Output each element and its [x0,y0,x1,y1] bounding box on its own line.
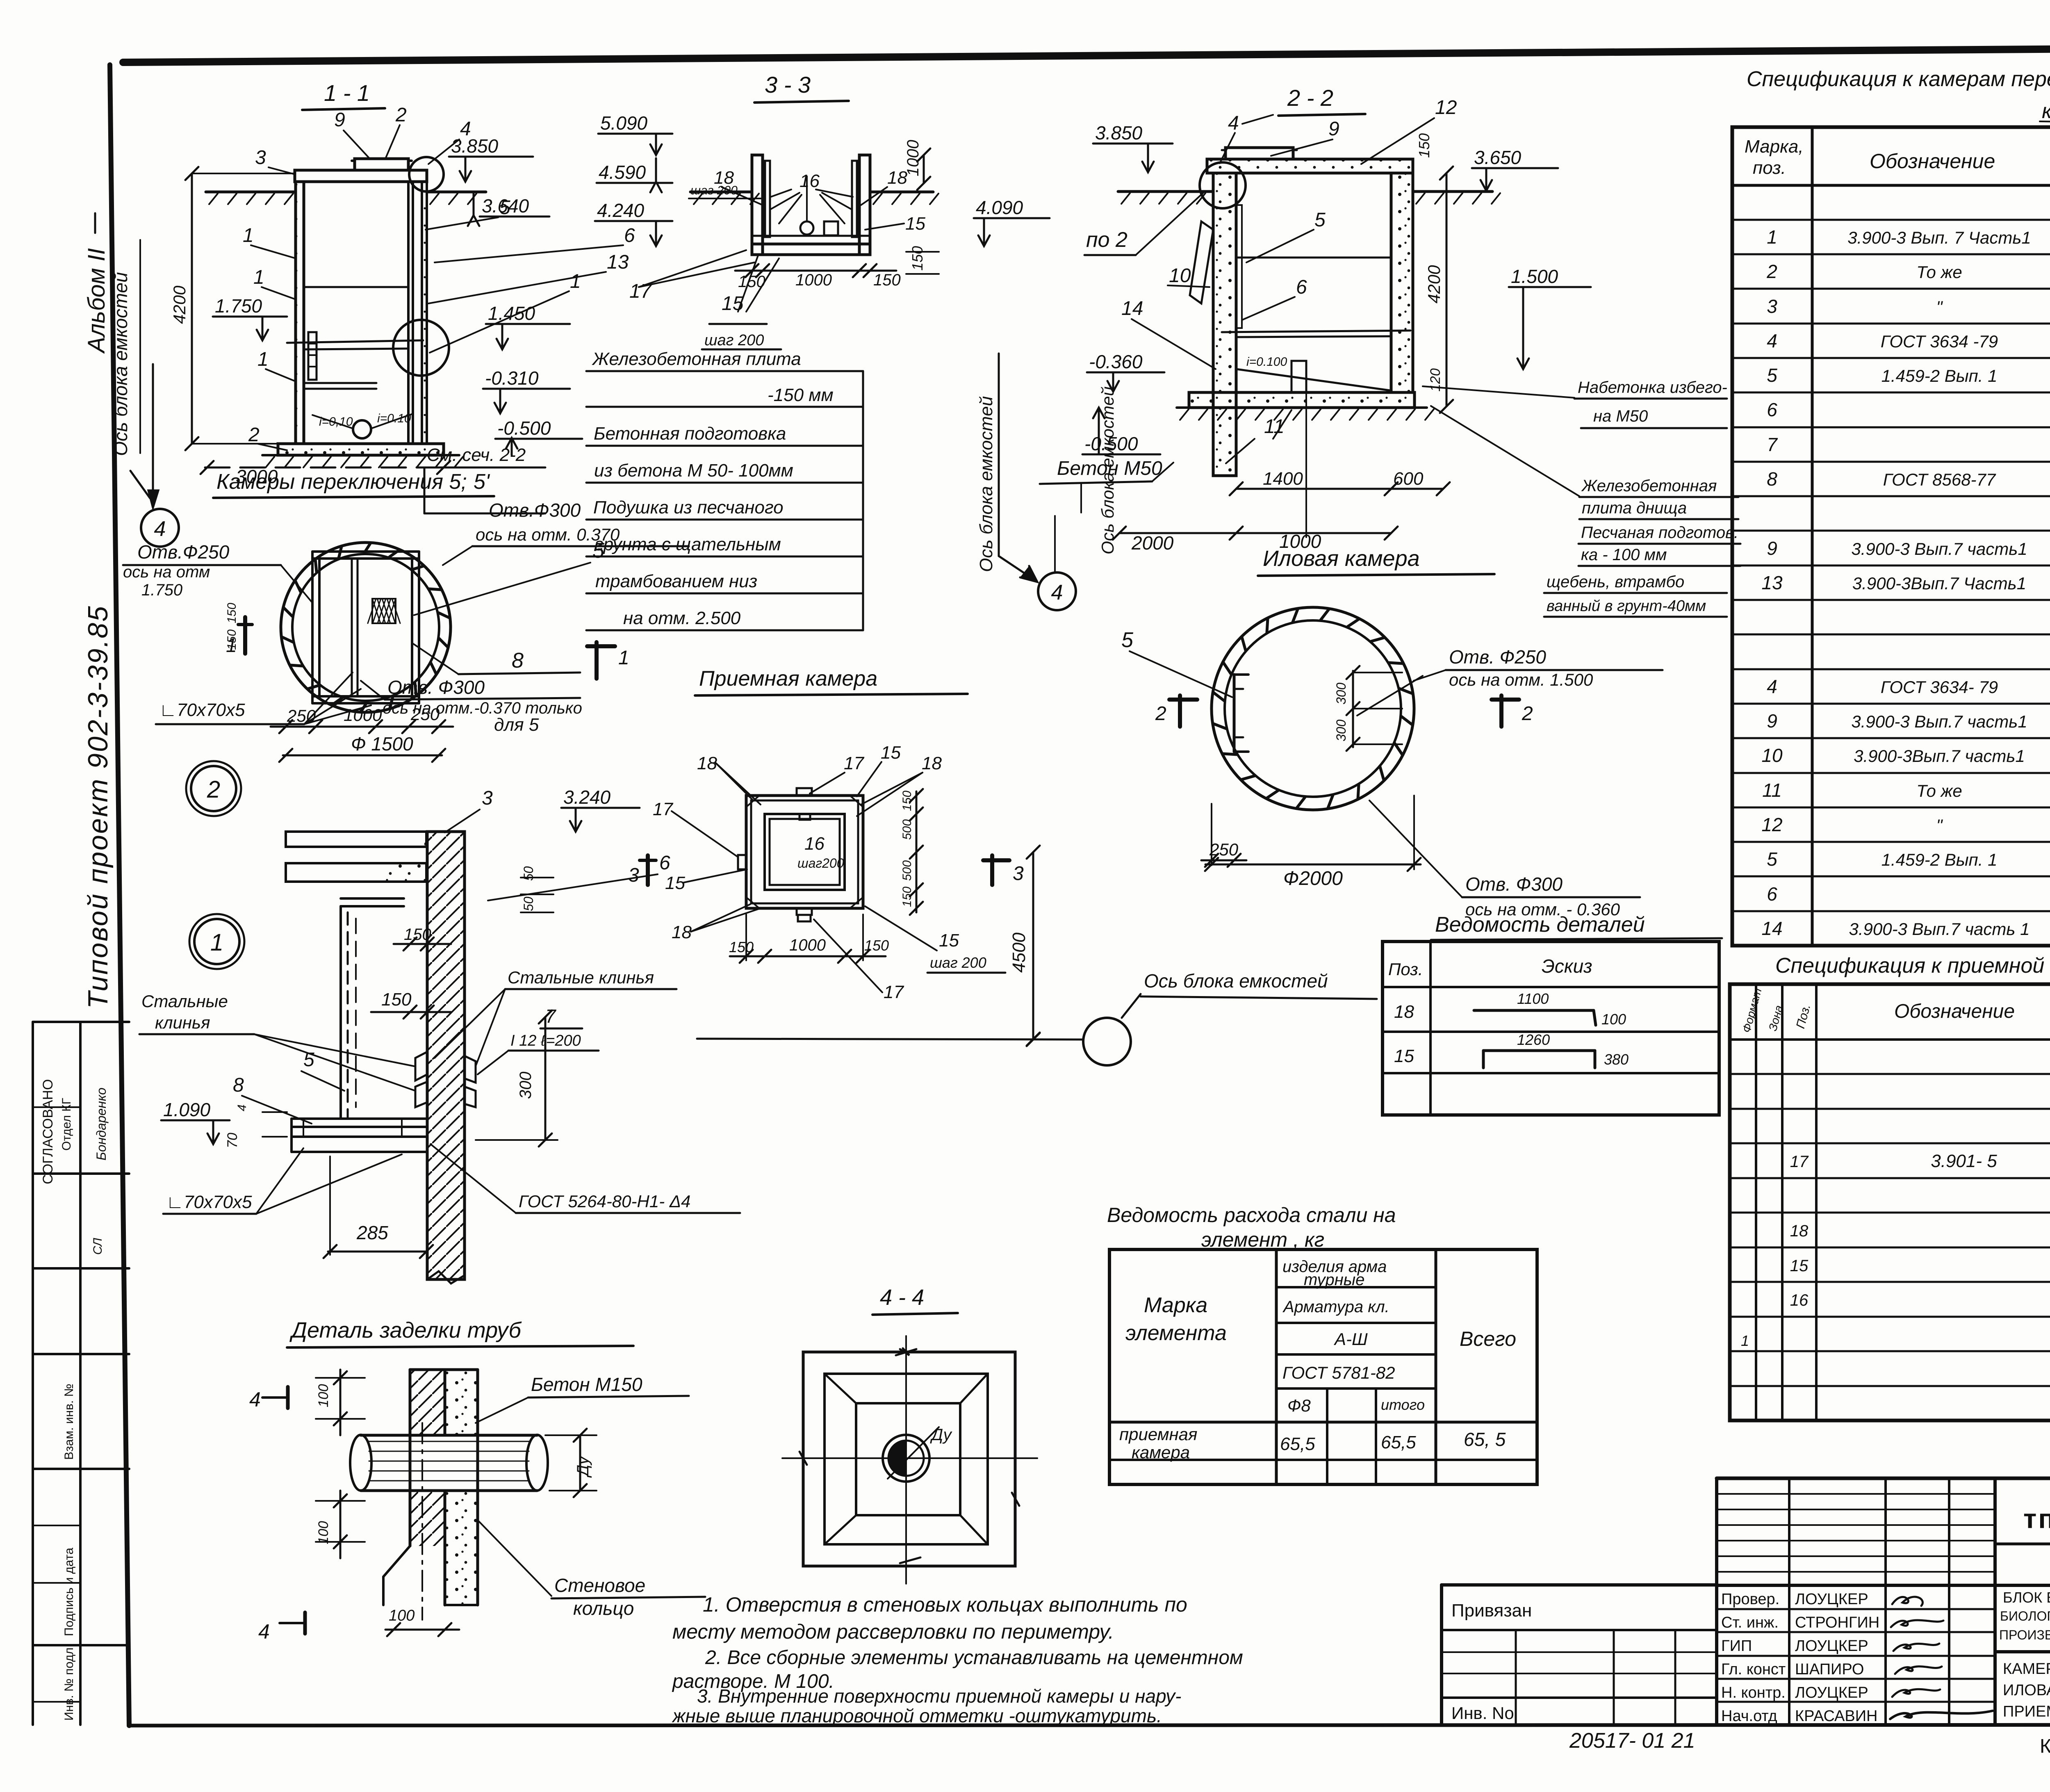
svg-text:КАМЕРА ПЕРЕКЛЮЧЕНИЯ 5, 5!: КАМЕРА ПЕРЕКЛЮЧЕНИЯ 5, 5! [2003,1660,2050,1678]
privyazan table [1442,1629,1717,1631]
svg-text:13: 13 [607,251,629,273]
section 1-1 left wall [296,182,304,444]
svg-text:Спецификация к камерам пе: Спецификация к камерам переключения, ило… [1747,67,2050,91]
priemnaya tabs [797,788,812,796]
section 3-3 ground hatch right [870,191,933,194]
svg-text:ка - 100 мм: ка - 100 мм [1581,546,1667,564]
pipe detail chamfer [383,1546,410,1577]
svg-text:Обозначение: Обозначение [1894,1001,2015,1022]
svg-text:2: 2 [248,424,260,446]
svg-text:Альбом II: Альбом II [83,248,110,354]
spec table 1 header row line [1732,184,2050,187]
svg-text:элемента: элемента [1125,1321,1227,1345]
svg-text:Нач.отд: Нач.отд [1721,1708,1777,1725]
section 1-1 ladder [308,332,317,380]
svg-text:4200: 4200 [1424,265,1444,303]
svg-text:Стеновое: Стеновое [554,1575,645,1596]
svg-text:1: 1 [618,647,629,669]
svg-text:Ось блока емкостей: Ось блока емкостей [976,396,996,572]
svg-text:6: 6 [1296,276,1307,298]
svg-text:Железобетонная: Железобетонная [1581,477,1717,495]
svg-text:ГОСТ 3634 -79: ГОСТ 3634 -79 [1881,332,1998,351]
section 1-1 ground hatch under slab [262,454,459,456]
ilovaya circle inner [1225,620,1401,797]
svg-text:для 5: для 5 [494,715,539,735]
svg-text:17: 17 [653,799,673,819]
stamp strip extra row lines [33,1525,80,1526]
spec table 1 rows [1732,219,2050,221]
svg-text:250: 250 [287,706,316,725]
svg-text:8: 8 [233,1074,244,1096]
svg-text:4.090: 4.090 [976,197,1023,218]
svg-text:15: 15 [665,873,685,893]
svg-text:14: 14 [1121,298,1143,319]
svg-text:БЛОК ЕМКОСТЕЙ ДЛЯ СТАНЦИИ: БЛОК ЕМКОСТЕЙ ДЛЯ СТАНЦИИ [2003,1589,2050,1606]
svg-text:1: 1 [1741,1332,1749,1349]
svg-text:4: 4 [1767,676,1777,697]
svg-text:камера: камера [2042,99,2050,123]
svg-text:на отм. 2.500: на отм. 2.500 [623,608,741,628]
svg-text:Стальные: Стальные [141,992,228,1011]
svg-text:11: 11 [1762,780,1782,801]
svg-text:1 - 1: 1 - 1 [324,80,370,106]
svg-text:150: 150 [909,246,926,271]
svg-text:на М50: на М50 [1593,407,1648,425]
plan circled 1 marker [194,919,239,964]
svg-text:4: 4 [235,1104,249,1111]
svg-text:Ведомость расхода стали на: Ведомость расхода стали на [1107,1204,1396,1227]
svg-text:Отв. Ф300: Отв. Ф300 [1465,873,1563,895]
section 4-4 inner square [856,1403,960,1515]
svg-text:70: 70 [225,1133,240,1148]
svg-text:3: 3 [1767,296,1777,317]
pipe detail centerline [421,1423,423,1620]
svg-text:": " [1936,297,1943,317]
axis leader and circle [1122,994,1141,1018]
wall detail upper slab 2 [286,863,426,882]
svg-text:10: 10 [1169,265,1191,287]
svg-text:5: 5 [592,539,605,563]
callout stack nabetonka leaders [1423,386,1574,398]
svg-text:шаг200: шаг200 [797,856,844,871]
section 3-3 ground hatch left [690,191,752,194]
svg-text:250: 250 [410,704,440,724]
svg-text:15: 15 [1790,1257,1809,1275]
svg-text:клинья: клинья [155,1013,210,1032]
svg-text:4: 4 [249,1388,261,1411]
svg-text:1000: 1000 [344,705,382,725]
svg-text:16: 16 [1790,1291,1809,1309]
svg-text:3.240: 3.240 [563,787,611,808]
section 2-2 dims 2000 1000 [1119,532,1391,534]
svg-text:1.090: 1.090 [163,1099,211,1120]
section 2-2 right wall [1391,173,1413,392]
svg-text:Отв.Ф300: Отв.Ф300 [489,499,581,521]
svg-text:Поз.: Поз. [1388,960,1423,979]
svg-text:Гл. конст: Гл. конст [1721,1661,1786,1678]
svg-text:Бондаренко: Бондаренко [94,1088,109,1160]
svg-text:СТРОНГИН: СТРОНГИН [1795,1614,1879,1631]
svg-text:ИЛОВАЯ КАМЕРА.: ИЛОВАЯ КАМЕРА. [2003,1682,2050,1699]
plan chamber inner structure [312,550,419,553]
svg-text:шаг 200: шаг 200 [690,184,738,197]
svg-text:18: 18 [1394,1002,1414,1022]
svg-text:-0.360: -0.360 [1089,351,1143,372]
svg-text:4: 4 [1051,581,1063,604]
svg-text:Инв. No: Инв. No [1451,1703,1514,1723]
svg-text:ГИП: ГИП [1721,1637,1752,1655]
sheet frame bottom border [129,1725,2050,1726]
spec table 2 header line [1730,1038,2050,1041]
svg-text:-0.500: -0.500 [497,417,551,439]
svg-text:3.901- 5: 3.901- 5 [1931,1151,1997,1171]
svg-text:1400: 1400 [1263,469,1303,489]
svg-text:жные выше планировочной отм: жные выше планировочной отметки -оштукат… [672,1705,1162,1726]
svg-text:Привязан: Привязан [1451,1600,1532,1621]
svg-text:3.900-3 Вып.7 часть1: 3.900-3 Вып.7 часть1 [1851,712,2027,731]
svg-text:4 - 4: 4 - 4 [880,1285,924,1310]
svg-text:ПРИЕМНАЯ КАМЕРА.: ПРИЕМНАЯ КАМЕРА. [2003,1703,2050,1720]
plan dims 250 1000 250 [271,726,453,728]
svg-text:шаг 200: шаг 200 [704,332,764,349]
section 3-3 reinforcement bars [765,161,770,237]
section 4-4 outer square [803,1352,1015,1566]
svg-text:Взам. инв. №: Взам. инв. № [62,1384,76,1460]
section 4-4 edge break marks [900,1348,909,1355]
svg-text:3: 3 [1013,863,1024,885]
pipe detail wall band [409,1370,412,1546]
svg-text:Ф8: Ф8 [1287,1396,1311,1415]
left margin axis arrow line [152,364,154,494]
svg-text:3.900-3 Вып.7 часть1: 3.900-3 Вып.7 часть1 [1851,539,2027,559]
section 3-3 interior items [800,221,813,235]
svg-text:9: 9 [1767,710,1777,732]
svg-text:Типовой проект 902-3-39.85: Типовой проект 902-3-39.85 [82,605,114,1009]
svg-text:месту методом рассверловки: месту методом рассверловки по периметру. [672,1620,1114,1643]
section 4-4 center lines [905,1336,907,1584]
svg-text:5: 5 [303,1049,314,1071]
title block signature rows [1717,1608,1995,1610]
svg-text:Стальные клинья: Стальные клинья [508,968,654,987]
svg-text:17: 17 [884,982,904,1002]
svg-text:итого: итого [1381,1396,1425,1413]
svg-text:3.900-3 Вып. 7 Часть1: 3.900-3 Вып. 7 Часть1 [1847,228,2031,247]
section 2-2 hatch cap [1225,148,1293,159]
wall detail liner angle [339,906,342,1119]
section 2-2 left wall [1213,173,1236,476]
svg-text:16: 16 [804,834,825,854]
svg-text:7: 7 [1767,434,1778,455]
svg-text:2: 2 [1155,703,1166,725]
section 1-1 ground line left [206,191,295,194]
svg-text:То же: То же [1916,262,1962,282]
section 2-2 ground line left [1118,190,1213,193]
ilovaya circle outer [1212,607,1414,810]
svg-text:Эскиз: Эскиз [1542,955,1592,977]
svg-text:16: 16 [799,171,820,191]
svg-text:3: 3 [255,147,266,169]
svg-text:1.500: 1.500 [1511,266,1558,287]
svg-text:3.650: 3.650 [1474,147,1522,168]
wall detail steel wedges [415,1052,427,1081]
svg-text:8: 8 [512,649,524,673]
spec table 2 rows [1730,1073,2050,1075]
svg-text:поз.: поз. [1753,158,1786,178]
svg-text:4.590: 4.590 [599,162,646,183]
svg-text:3.900-3Вып.7 Часть1: 3.900-3Вып.7 Часть1 [1852,574,2026,593]
svg-text:100: 100 [316,1384,331,1407]
wall detail axis dashed [355,919,357,1107]
section 1-1 dim 3000 [205,467,445,469]
svg-text:2: 2 [1522,703,1533,725]
svg-text:-0.310: -0.310 [485,367,539,389]
svg-text:65, 5: 65, 5 [1464,1429,1506,1450]
svg-text:5': 5' [474,470,490,494]
svg-text:Инв. № подл.: Инв. № подл. [62,1644,76,1721]
title block small top rows [1717,1493,1995,1495]
svg-text:150: 150 [729,939,754,955]
svg-text:50: 50 [521,896,536,911]
svg-text:1000: 1000 [904,140,922,176]
svg-text:18: 18 [672,922,692,942]
svg-text:ГОСТ 5264-80-Н1- Δ4: ГОСТ 5264-80-Н1- Δ4 [519,1192,690,1211]
section 3-3 bottom dims 150 1000 150 [735,270,896,272]
svg-text:ПРОИЗВОДИТЕЛЬНОСТЬЮ 400 М3/СУТ: ПРОИЗВОДИТЕЛЬНОСТЬЮ 400 М3/СУТКИ [1999,1628,2050,1642]
section 1-1 ground line right [427,191,486,194]
section 2-2 stremyanka inner ladder [1236,205,1242,328]
svg-text:Н. контр.: Н. контр. [1721,1684,1786,1701]
svg-text:50: 50 [521,866,536,881]
spec table 1 frame [1732,127,2050,946]
svg-text:Арматура кл.: Арматура кл. [1282,1298,1389,1316]
sheet frame left border [110,65,129,1726]
plan section mark 1 left [243,617,247,654]
left bottom stamp boxes [32,1022,34,1725]
section 3-3 channel left wall [752,155,763,255]
svg-text:Песчаная подготов.: Песчаная подготов. [1581,524,1738,542]
title block vertical cols left [1788,1478,1790,1725]
section 2-2 dims 1400 600 [1236,488,1443,490]
svg-text:100: 100 [316,1521,331,1544]
svg-text:1: 1 [243,225,254,246]
svg-text:Ф 1500: Ф 1500 [351,733,413,755]
ilovaya dim 300 300 [1352,671,1354,747]
svg-text:1000: 1000 [795,271,832,289]
svg-text:Спецификация к приемной ка: Спецификация к приемной камере [1775,954,2050,978]
svg-text:Отв. Ф300: Отв. Ф300 [387,677,485,698]
svg-text:4: 4 [1767,330,1777,351]
section 2-2 slope line and pipe stub [1236,369,1390,390]
svg-text:Формат: Формат [1740,987,1764,1034]
svg-text:1.750: 1.750 [141,581,182,599]
svg-text:3 - 3: 3 - 3 [765,72,811,98]
priemnaya corner hatch [746,796,759,807]
axis circled 4 (upper) [1054,516,1056,572]
svg-text:18: 18 [922,753,942,773]
svg-text:6: 6 [1767,883,1777,905]
section 2-2 detail circle top left [1200,162,1246,208]
svg-text:Марка: Марка [1144,1293,1207,1317]
priemnaya dim 4500 [1032,852,1034,1040]
svg-text:65,5: 65,5 [1280,1434,1315,1454]
wall detail bottom shelf [292,1117,426,1120]
svg-text:6: 6 [624,225,635,246]
svg-text:2: 2 [1766,261,1777,282]
svg-text:Деталь заделки труб: Деталь заделки труб [289,1318,522,1343]
sheet frame top border [123,46,2050,62]
svg-text:250: 250 [1209,840,1239,859]
svg-text:15: 15 [905,214,925,234]
svg-text:8: 8 [1767,468,1777,490]
svg-text:БИОЛОГИЧЕСКОЙ ОЧИСТКИ СТОЧНЫХ: БИОЛОГИЧЕСКОЙ ОЧИСТКИ СТОЧНЫХ ВОД [2000,1609,2050,1623]
svg-text:3.900-3 Вып.7 часть 1: 3.900-3 Вып.7 часть 1 [1849,919,2029,939]
svg-text:Бетон М150: Бетон М150 [531,1374,642,1395]
pipe detail pipe body [361,1434,537,1437]
svg-text:Набетонка избего-: Набетонка избего- [1578,378,1727,397]
svg-text:1: 1 [257,349,269,370]
svg-text:380: 380 [1604,1051,1629,1068]
section 1-1 dim 4200 [191,173,193,444]
section 2-2 ground hatch under slab [1177,406,1427,409]
section 2-2 ground line right [1413,190,1492,193]
svg-text:3: 3 [482,787,493,809]
svg-text:i=0,10: i=0,10 [319,415,353,429]
svg-text:1.750: 1.750 [215,295,262,317]
section 1-1 bottom slab [278,444,444,455]
svg-text:15: 15 [1394,1046,1414,1066]
section 2-2 dim 4200 right [1446,173,1448,406]
plan chamber circle inner [292,554,439,701]
svg-text:": " [1936,816,1943,835]
section 2-2 top slab [1207,159,1413,173]
wall detail concrete wall vertical [427,832,465,1279]
svg-text:ГОСТ 5781-82: ГОСТ 5781-82 [1282,1363,1395,1382]
svg-text:кольцо: кольцо [573,1598,634,1619]
svg-text:Железобетонная плита: Железобетонная плита [592,349,801,369]
svg-text:150: 150 [900,791,914,811]
svg-text:То же: То же [1916,781,1962,800]
svg-text:2000: 2000 [1131,532,1174,554]
svg-text:65,5: 65,5 [1381,1432,1416,1452]
plan chamber ring hatch [439,638,448,647]
svg-text:18: 18 [1790,1222,1809,1240]
svg-text:1260: 1260 [1517,1031,1550,1048]
svg-text:ванный в грунт-40мм: ванный в грунт-40мм [1547,597,1706,615]
ilovaya section mark 2T left [1178,695,1182,727]
svg-text:ось на отм: ось на отм [123,563,210,581]
svg-text:5: 5 [1767,848,1777,870]
section 1-1 drain circle [353,420,371,438]
priemnaya section mark T3 right [990,855,994,885]
svg-text:285: 285 [356,1222,388,1243]
section 4-4 circle du [883,1435,929,1482]
svg-text:шаг 200: шаг 200 [930,954,986,971]
svg-text:100: 100 [1601,1011,1626,1028]
svg-text:4.240: 4.240 [597,200,645,221]
section 1-1 right wall [408,182,413,444]
svg-text:Приемная камера: Приемная камера [699,667,877,691]
svg-text:2 - 2: 2 - 2 [1287,85,1333,111]
vedomost detaley table frame [1383,942,1719,1115]
spec table 2 column lines [1755,984,1757,1420]
svg-text:Ось блока емкостей: Ось блока емкостей [110,272,131,456]
svg-text:ГОСТ 3634- 79: ГОСТ 3634- 79 [1881,677,1998,697]
svg-text:по 2: по 2 [1086,228,1127,252]
svg-text:9: 9 [1328,118,1339,140]
svg-text:3: 3 [628,864,639,886]
priemnaya square inner [765,814,845,890]
section 4-4 middle square [825,1374,988,1544]
section 1-1 detail circle top right [409,157,444,192]
svg-text:2: 2 [395,104,407,126]
svg-text:щебень, втрамбо: щебень, втрамбо [1547,573,1684,591]
svg-text:Копировал: Копировал [2040,1735,2050,1757]
svg-text:600: 600 [1393,469,1424,489]
svg-text:4200: 4200 [170,285,189,324]
svg-text:3.640: 3.640 [482,195,529,217]
svg-text:1: 1 [570,271,581,292]
spec table 2 frame [1730,984,2050,1420]
svg-text:из бетона М 50- 100мм: из бетона М 50- 100мм [594,461,793,481]
svg-text:Подушка из песчаного: Подушка из песчаного [593,497,784,518]
svg-text:-150 мм: -150 мм [768,385,834,405]
svg-text:Камеры переключения 5;: Камеры переключения 5; [216,470,467,494]
section 1-1 interior joint line [304,286,408,288]
svg-text:6: 6 [1767,399,1777,420]
svg-text:150: 150 [864,937,889,954]
svg-text:9: 9 [334,109,345,131]
section 3-3 channel bottom slab [752,244,870,255]
title block signatures scribble [1892,1597,1922,1606]
svg-text:13: 13 [1761,572,1783,593]
svg-text:Иловая камера: Иловая камера [1263,546,1420,571]
svg-text:∟70х70х5: ∟70х70х5 [166,1192,252,1212]
title block outer lines [1717,1477,2050,1480]
svg-text:17: 17 [1790,1153,1809,1171]
svg-text:300: 300 [1334,719,1348,741]
wall detail upper slab 1 [286,832,426,847]
svg-text:12: 12 [1435,97,1457,119]
plan chamber circle outer [281,543,451,712]
plan circled 4 marker [141,509,179,547]
plan circled 2 marker [191,766,236,811]
svg-text:∟70х70х5: ∟70х70х5 [159,700,245,720]
svg-text:12: 12 [1761,814,1782,835]
svg-text:тп 902-3-39.85: тп 902-3-39.85 [2023,1503,2050,1534]
section 4-4 corner diagonals [825,1374,856,1403]
svg-text:i=0.10: i=0.10 [377,412,411,425]
svg-text:2: 2 [207,776,220,803]
section 3-3 channel right wall [859,155,870,255]
svg-text:Отв. Ф250: Отв. Ф250 [1449,646,1546,668]
svg-text:приемная: приемная [1119,1425,1197,1444]
svg-text:См. сеч. 2-2: См. сеч. 2-2 [427,445,526,465]
svg-text:Бетонная подготовка: Бетонная подготовка [594,424,786,444]
section 2-2 interior lines [1236,257,1391,259]
ilovaya ring hatch [1395,743,1402,755]
svg-text:300: 300 [1334,682,1348,704]
svg-text:ЛОУЦКЕР: ЛОУЦКЕР [1795,1591,1868,1608]
section 3-3 dim 1000 right [923,155,925,183]
svg-text:500: 500 [900,860,914,881]
wall detail wall break bottom [427,1271,465,1284]
svg-text:Всего: Всего [1460,1327,1516,1350]
svg-text:5: 5 [1314,209,1326,231]
svg-text:1100: 1100 [1517,990,1549,1007]
svg-text:300: 300 [517,1072,535,1099]
svg-text:500: 500 [900,819,914,840]
svg-text:турные: турные [1304,1271,1364,1289]
